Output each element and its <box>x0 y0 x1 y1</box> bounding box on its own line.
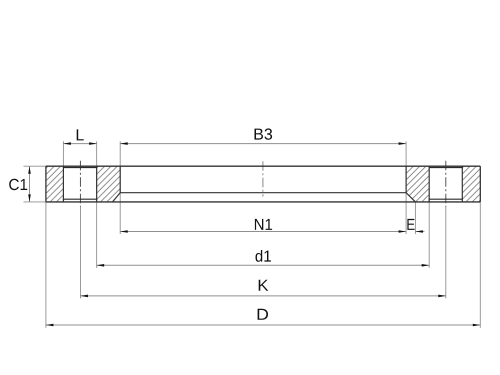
label K <box>259 280 269 291</box>
chamfer right <box>406 193 415 202</box>
bore step line left <box>119 166 121 193</box>
extension line L right <box>96 141 98 165</box>
extension line B3 left / N1 left <box>119 141 121 234</box>
bore step line right <box>405 166 407 193</box>
arrow d1 left <box>97 264 105 267</box>
arrow N1 right <box>399 230 407 233</box>
arrow C1 top <box>28 166 31 174</box>
label L <box>77 129 84 140</box>
hatched section: left outer ring <box>46 166 64 202</box>
arrow C1 bottom <box>28 194 31 202</box>
bolt hole left: top inner edge <box>63 167 97 169</box>
arrow d1 right <box>422 264 430 267</box>
label B3 <box>255 128 273 139</box>
extension line d1 left <box>96 202 98 268</box>
dimension line B3 <box>120 143 406 145</box>
arrow B3 left <box>120 142 128 145</box>
label C1 <box>9 179 27 190</box>
dimension tail E <box>415 231 424 233</box>
label E <box>407 219 414 230</box>
extension line d1 right <box>428 202 430 268</box>
bolt hole left: left edge <box>62 166 64 202</box>
bolt hole right: left edge <box>428 166 430 202</box>
flange top edge <box>46 165 480 167</box>
extension line D left <box>45 202 47 328</box>
hatched section: right inner ring with chamfer <box>406 166 429 202</box>
chamfer left <box>113 193 121 202</box>
extension line D right <box>479 202 481 328</box>
label d1 <box>256 250 271 262</box>
arrow L right <box>89 142 97 145</box>
bolt hole right: bottom inner edge <box>429 198 463 200</box>
extension line B3 right / N1 right / E left <box>405 141 407 234</box>
dimension line L <box>63 143 96 145</box>
hatched section: right outer ring <box>462 166 480 202</box>
flange bottom edge <box>46 201 480 203</box>
dimension line d1 <box>97 264 430 266</box>
dimension line D <box>46 324 480 326</box>
bolt hole right: top inner edge <box>429 167 463 169</box>
bolt hole right: right edge <box>461 166 463 202</box>
arrow N1 left <box>120 230 128 233</box>
arrow L left <box>63 142 71 145</box>
arrow D left <box>46 324 54 327</box>
dimension line C1 <box>29 166 31 202</box>
centerline flange axis <box>262 161 264 196</box>
bolt hole left: bottom inner edge <box>63 198 97 200</box>
extension line E right <box>414 202 416 234</box>
hatched section: left inner ring with chamfer <box>97 166 121 202</box>
dimension line K <box>80 295 445 297</box>
bolt hole left: right edge <box>96 166 98 202</box>
extension line C1 top <box>24 165 46 167</box>
label N1 <box>255 219 272 230</box>
arrow B3 right <box>399 142 407 145</box>
extension line K left <box>79 207 81 299</box>
flange left edge <box>45 166 47 202</box>
label D <box>258 309 268 320</box>
centerline right bolt hole <box>445 161 447 207</box>
extension line C1 bottom <box>24 201 46 203</box>
dimension line N1 <box>120 231 406 233</box>
extension line L left <box>62 141 64 165</box>
centerline left bolt hole <box>79 161 81 207</box>
arrow K right <box>438 295 446 298</box>
extension line K right <box>445 207 447 299</box>
arrow D right <box>473 324 481 327</box>
recess face line <box>120 192 406 194</box>
arrow K left <box>80 295 88 298</box>
arrow E right <box>415 230 423 233</box>
flange right edge <box>479 166 481 202</box>
